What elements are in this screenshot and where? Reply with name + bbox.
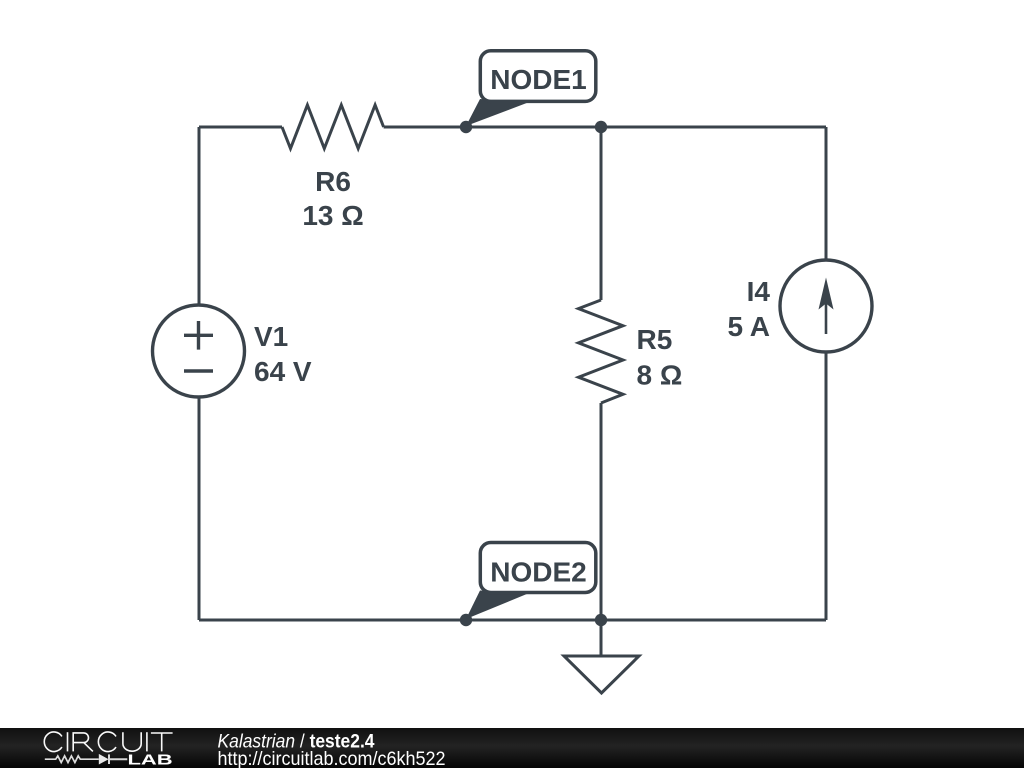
voltage source V1: [153, 305, 245, 397]
label V1: [254, 321, 312, 387]
logo resistor squiggle: [45, 756, 99, 763]
label NODE1 balloon: [480, 51, 596, 102]
wire top-left lead: [199, 126, 282, 129]
junction dot top: [595, 121, 607, 133]
svg-text:V1: V1: [254, 321, 288, 352]
svg-text:NODE2: NODE2: [490, 557, 586, 588]
ground symbol: [564, 656, 639, 693]
wire right vertical upper: [825, 127, 828, 260]
wire right vertical lower: [825, 352, 828, 620]
logo diode cathode bar and lead: [109, 754, 127, 764]
label NODE2 pointer wedge: [466, 591, 528, 620]
wire middle vertical upper: [600, 127, 603, 300]
node NODE1 anchor dot: [460, 121, 472, 133]
svg-text:13 Ω: 13 Ω: [302, 200, 363, 231]
current source I4: [780, 260, 872, 352]
junction dot bottom: [595, 614, 607, 626]
ground lead wire: [600, 620, 603, 656]
V1 plus sign: [184, 321, 213, 350]
svg-text:I4: I4: [747, 276, 771, 307]
footer bar: [0, 728, 1024, 768]
I4 arrow head: [819, 278, 834, 310]
wire left vertical lower: [198, 397, 201, 620]
svg-text:8 Ω: 8 Ω: [637, 360, 683, 391]
node NODE2 anchor dot: [460, 614, 472, 626]
logo diode symbol: [99, 754, 109, 765]
label R5: [637, 324, 683, 391]
svg-text:R5: R5: [637, 324, 673, 355]
svg-text:NODE1: NODE1: [490, 64, 586, 95]
label NODE2 balloon: [480, 543, 596, 593]
I4 arrow shaft: [825, 300, 828, 334]
svg-text:5 A: 5 A: [727, 311, 770, 342]
svg-text:http://circuitlab.com/c6kh522: http://circuitlab.com/c6kh522: [218, 748, 446, 768]
svg-text:64 V: 64 V: [254, 356, 312, 387]
logo CIRCUIT lettering: [44, 732, 172, 752]
V1 minus sign: [184, 369, 213, 372]
wire bottom: [199, 619, 826, 622]
svg-text:LAB: LAB: [128, 752, 173, 768]
resistor R5: [579, 300, 624, 403]
resistor R6: [282, 105, 384, 149]
wire middle vertical lower: [600, 403, 603, 620]
label R6: [302, 166, 363, 231]
label I4: [727, 276, 770, 342]
label NODE1 pointer wedge: [466, 99, 528, 126]
wire left vertical upper: [198, 127, 201, 305]
svg-text:R6: R6: [315, 166, 351, 197]
wire top: [384, 126, 826, 129]
